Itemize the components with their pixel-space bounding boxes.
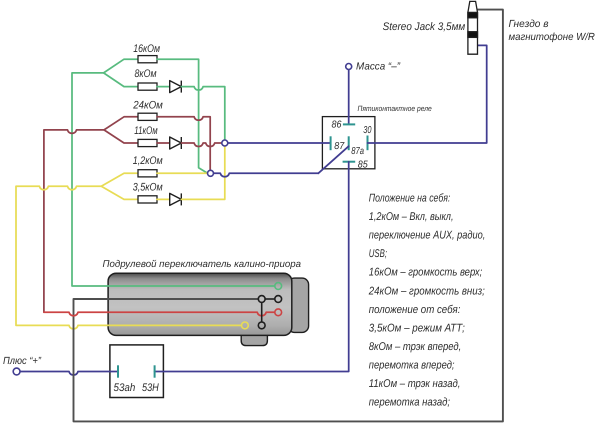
svg-text:16кОм – громкость верх;: 16кОм – громкость верх; bbox=[369, 267, 483, 279]
resistor 24kOm bbox=[138, 113, 157, 120]
relay pin 87 contact bbox=[330, 136, 332, 150]
svg-text:Пятиконтактное реле: Пятиконтактное реле bbox=[358, 104, 432, 113]
wire green splitter (16k/8k branch point) bbox=[104, 59, 138, 86]
diode D2 (11kOm branch) bbox=[170, 137, 182, 149]
svg-text:8кОм: 8кОм bbox=[135, 68, 157, 80]
terminal Plus "+" bbox=[13, 368, 20, 375]
switch internal link (black terminals) bbox=[262, 299, 275, 322]
stereo jack plug body bbox=[468, 1, 478, 54]
wire 8kOm diode output down to node A bbox=[181, 87, 225, 140]
resistor 8kOm bbox=[138, 83, 157, 90]
wire yellow splitter (1.2k/3.5k branch point) bbox=[101, 173, 138, 199]
svg-text:перемотка назад;: перемотка назад; bbox=[369, 397, 450, 409]
svg-text:86: 86 bbox=[332, 120, 342, 131]
svg-text:24кОм: 24кОм bbox=[132, 99, 163, 111]
wire 1.2kOm output to node B bbox=[157, 172, 208, 174]
svg-text:11кОм – трэк назад,: 11кОм – трэк назад, bbox=[369, 378, 461, 390]
relay pin 86 contact bbox=[343, 123, 355, 125]
relay pin 85 contact bbox=[343, 161, 356, 163]
svg-text:24кОм – громкость вниз;: 24кОм – громкость вниз; bbox=[368, 285, 485, 297]
steering-wheel switch right end cap bbox=[288, 278, 309, 332]
wire red feed from switch up left side bbox=[44, 130, 104, 312]
svg-text:магнитофоне W/R: магнитофоне W/R bbox=[509, 32, 596, 43]
switch terminal black 2 bbox=[275, 296, 282, 303]
wire yellow feed from switch up left side bbox=[16, 186, 241, 329]
relay box (Pyatikontaktnoe rele) bbox=[322, 117, 375, 169]
wire 24kOm output down to node B bbox=[157, 117, 210, 171]
wire red splitter (24k/11k branch point) bbox=[104, 117, 138, 143]
svg-text:положение от себя:: положение от себя: bbox=[369, 304, 461, 316]
wire jack tip loop (switch common, bottom and right side) bbox=[74, 10, 503, 422]
svg-text:16кОм: 16кОм bbox=[133, 43, 160, 55]
svg-text:1,2кОм – Вкл, выкл,: 1,2кОм – Вкл, выкл, bbox=[369, 211, 454, 223]
wire node A to relay pin 87 bbox=[228, 142, 331, 144]
svg-text:87а: 87а bbox=[351, 146, 364, 157]
connector pin 53ah contact bbox=[117, 365, 119, 377]
wire 16kOm output down to node B bbox=[157, 59, 208, 173]
resistor 16kOm bbox=[138, 56, 157, 63]
svg-text:Stereo Jack 3,5мм: Stereo Jack 3,5мм bbox=[383, 21, 466, 33]
svg-text:30: 30 bbox=[363, 125, 372, 136]
svg-text:перемотка вперед;: перемотка вперед; bbox=[369, 359, 455, 371]
svg-text:3,5кОм – режим АТТ;: 3,5кОм – режим АТТ; bbox=[369, 322, 465, 334]
resistor 1.2kOm bbox=[138, 170, 157, 177]
svg-text:53ah: 53ah bbox=[114, 382, 136, 394]
svg-text:11кОм: 11кОм bbox=[134, 125, 158, 137]
connector box (53ah / 53H) bbox=[110, 345, 163, 398]
node B (direct outputs junction) bbox=[208, 170, 214, 176]
svg-text:53Н: 53Н bbox=[142, 382, 159, 394]
wire 3.5kOm diode output up to node A bbox=[181, 146, 225, 199]
wire Massa to relay pin 86 bbox=[348, 70, 350, 124]
relay armature diagonal (87a movable contact) bbox=[318, 146, 348, 173]
svg-text:85: 85 bbox=[358, 159, 368, 170]
svg-text:1,2кОм: 1,2кОм bbox=[133, 155, 163, 167]
switch terminal red bbox=[275, 309, 282, 316]
terminal Massa "-" bbox=[346, 64, 352, 70]
svg-text:Положение на себя:: Положение на себя: bbox=[369, 193, 451, 205]
switch terminal black 1 bbox=[258, 296, 265, 303]
node A (diode outputs junction) bbox=[222, 140, 228, 146]
diode D3 (3.5kOm branch) bbox=[170, 193, 182, 205]
steering-wheel switch bottom foot bbox=[241, 334, 267, 346]
wire 11kOm resistor to diode bbox=[157, 142, 170, 144]
svg-text:Гнездо в: Гнездо в bbox=[509, 19, 550, 30]
relay pin 87a contact bbox=[348, 136, 350, 150]
svg-text:Плюс “+”: Плюс “+” bbox=[3, 356, 42, 367]
wire node B to relay common 87a bbox=[214, 173, 319, 176]
svg-text:переключение AUX, радио,: переключение AUX, радио, bbox=[369, 230, 486, 242]
wire 8kOm resistor to diode bbox=[157, 86, 170, 88]
relay pin 30 contact bbox=[367, 136, 369, 151]
wire relay pin 30 to jack sleeve bbox=[368, 45, 487, 143]
svg-text:3,5кОм: 3,5кОм bbox=[133, 182, 163, 194]
wire 3.5kOm resistor to diode bbox=[157, 198, 170, 200]
switch terminal black 3 bbox=[258, 322, 265, 329]
switch terminal yellow bbox=[242, 322, 249, 329]
wire red into switch to red terminal bbox=[44, 312, 275, 315]
wire connector to Plus terminal bbox=[20, 372, 118, 375]
wire relay pin 85 down and left to connector bbox=[155, 162, 349, 372]
connector pin 53H contact bbox=[154, 365, 156, 377]
svg-text:USB;: USB; bbox=[369, 248, 387, 260]
diode D1 (8kOm branch) bbox=[170, 81, 182, 93]
switch terminal green (volume common) bbox=[275, 283, 282, 290]
svg-text:Подрулевой переключатель калин: Подрулевой переключатель калино-приора bbox=[103, 259, 302, 270]
wire 11kOm diode output to node A bbox=[181, 143, 222, 146]
svg-text:8кОм – трэк вперед,: 8кОм – трэк вперед, bbox=[369, 341, 462, 353]
resistor 3.5kOm bbox=[138, 196, 157, 203]
wire green feed from switch up left side bbox=[72, 73, 275, 286]
resistor 11kOm bbox=[138, 139, 157, 146]
svg-text:Масса “–”: Масса “–” bbox=[356, 61, 401, 72]
